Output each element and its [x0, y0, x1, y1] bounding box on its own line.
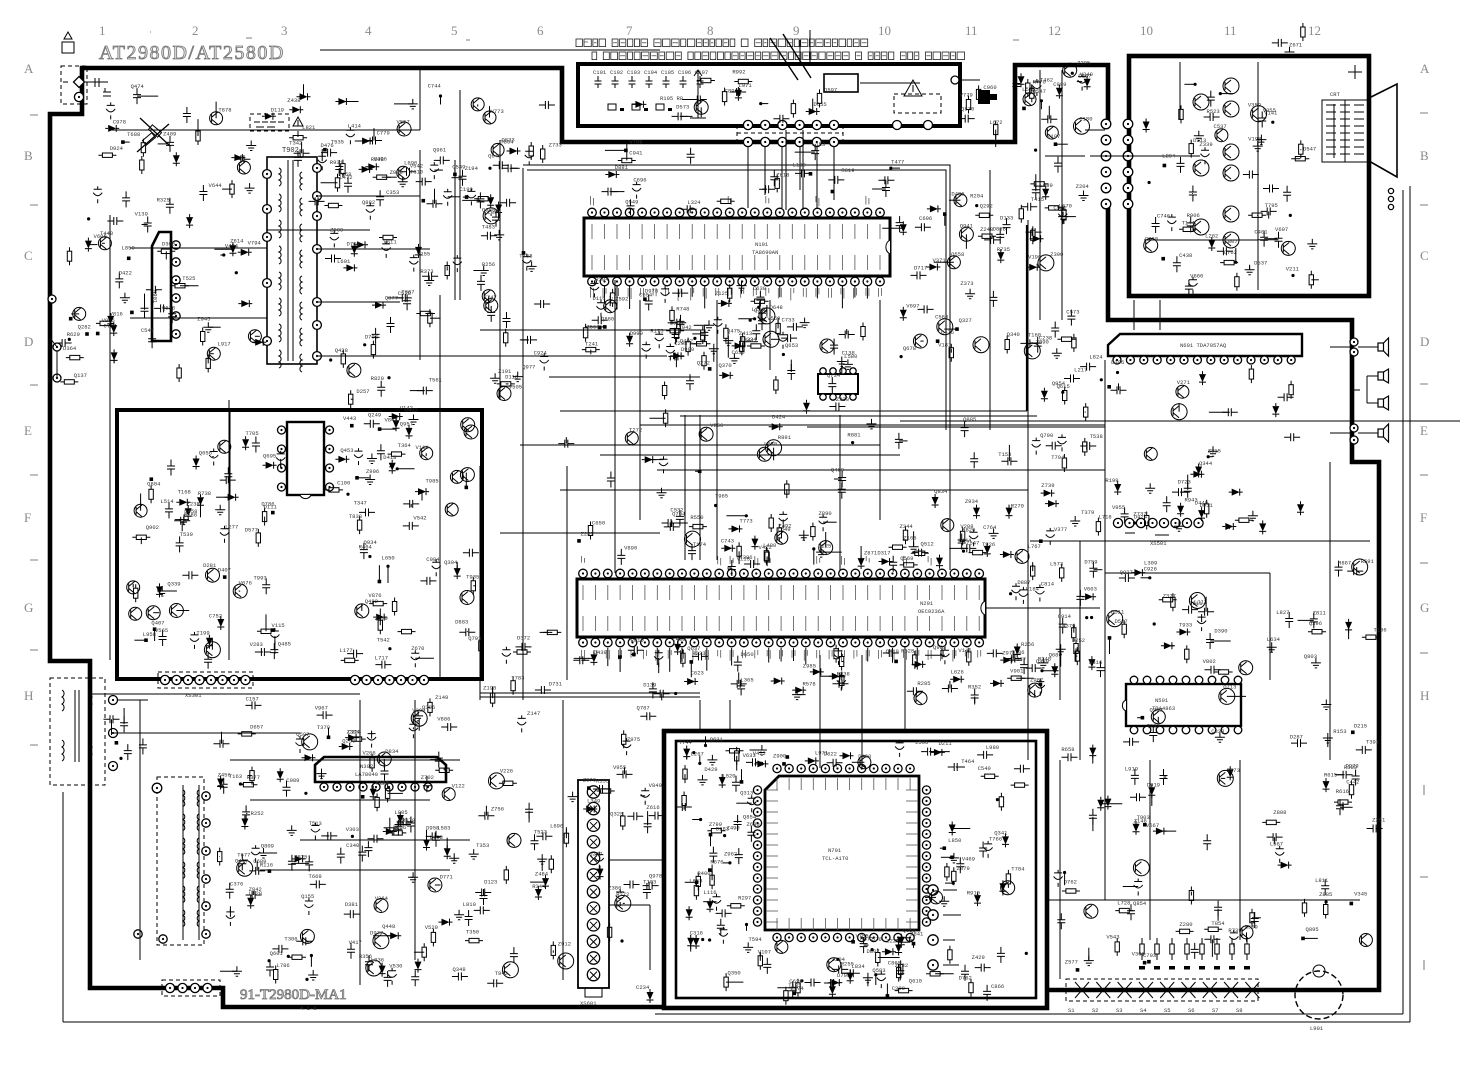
svg-text:C: C	[1420, 248, 1429, 263]
svg-text:S1: S1	[1068, 1007, 1075, 1014]
component cluster: bottom-left mid column	[474, 705, 665, 1003]
wire bottomleft vert	[140, 466, 480, 960]
svg-text:V890: V890	[624, 544, 637, 551]
svg-text:T854: T854	[1211, 920, 1225, 927]
svg-text:L971: L971	[815, 749, 829, 756]
svg-text:D422: D422	[119, 269, 132, 276]
svg-text:L767: L767	[1028, 543, 1041, 550]
svg-text:G: G	[24, 600, 33, 615]
svg-text:Z890: Z890	[818, 510, 831, 517]
svg-text:E: E	[1420, 423, 1428, 438]
wire top right col	[1040, 70, 1105, 320]
svg-text:D978: D978	[645, 288, 658, 295]
svg-text:Z871: Z871	[864, 550, 878, 557]
wire vert center a	[685, 300, 717, 560]
svg-text:R550: R550	[690, 514, 703, 521]
svg-text:T306: T306	[284, 935, 297, 942]
svg-text:Z238: Z238	[187, 500, 200, 507]
svg-text:L717: L717	[375, 654, 388, 661]
svg-text:V264: V264	[375, 895, 389, 902]
svg-text:C779: C779	[377, 129, 390, 136]
svg-text:C733: C733	[781, 316, 794, 323]
svg-text:L116: L116	[703, 889, 716, 896]
svg-text:V145: V145	[958, 647, 971, 654]
AC power inlet XP901	[61, 32, 111, 104]
svg-text:L626: L626	[951, 669, 964, 676]
top block structured parts	[593, 34, 811, 118]
svg-text:T174: T174	[693, 541, 707, 548]
svg-text:Q934: Q934	[364, 539, 378, 546]
svg-text:C340: C340	[346, 842, 359, 849]
svg-text:D887: D887	[1017, 579, 1030, 586]
CRT anode wire	[1348, 65, 1362, 79]
svg-text:S6: S6	[1188, 1007, 1195, 1014]
svg-text:R820: R820	[371, 375, 384, 382]
wire right-bottom link	[1047, 770, 1105, 900]
svg-text:R628: R628	[901, 647, 914, 654]
svg-text:Q927: Q927	[1120, 569, 1133, 576]
IC N501 pins	[1130, 676, 1242, 734]
driver transformer T903	[157, 777, 210, 945]
svg-text:R992: R992	[732, 69, 745, 76]
svg-text:Z569: Z569	[1245, 923, 1258, 930]
svg-text:C102: C102	[610, 69, 623, 76]
wire psu-to-T902	[317, 196, 520, 356]
svg-text:T784: T784	[1011, 865, 1025, 872]
svg-text:D731: D731	[549, 680, 563, 687]
line filter T901	[50, 678, 118, 785]
component cluster: IC2 right tail	[1002, 559, 1102, 698]
svg-text:T525: T525	[182, 275, 195, 282]
bottom sub-board outer border	[664, 731, 1047, 1008]
svg-text:V115: V115	[272, 622, 285, 629]
svg-text:5: 5	[451, 23, 458, 38]
component cluster: below left block	[104, 708, 147, 760]
svg-text:D372: D372	[517, 634, 530, 641]
component cluster: right upper below connector	[1032, 353, 1304, 535]
svg-text:R891: R891	[778, 434, 792, 441]
svg-text:S4: S4	[1140, 1007, 1147, 1014]
svg-text:D597: D597	[824, 87, 837, 94]
svg-text:L691: L691	[337, 258, 351, 265]
svg-text:N701: N701	[828, 847, 842, 854]
svg-text:V226: V226	[500, 768, 513, 775]
svg-text:L217: L217	[1074, 366, 1087, 373]
svg-text:L696: L696	[550, 823, 563, 830]
svg-text:D881: D881	[615, 164, 629, 171]
svg-text:Z909: Z909	[330, 227, 343, 234]
svg-text:Q653: Q653	[785, 342, 798, 349]
svg-text:AT2980D/AT2580D: AT2980D/AT2580D	[99, 42, 285, 64]
svg-text:Q977: Q977	[522, 364, 535, 371]
wire vert right long	[1104, 360, 1106, 770]
svg-text:T688: T688	[127, 131, 140, 138]
svg-text:V543: V543	[1106, 933, 1119, 940]
svg-text:C157: C157	[246, 696, 259, 703]
svg-text:Z146: Z146	[1134, 817, 1147, 824]
svg-text:T379: T379	[1081, 509, 1094, 516]
component cluster: above IC2	[577, 510, 1067, 576]
svg-text:T513: T513	[309, 820, 322, 827]
svg-text:Q512: Q512	[921, 541, 934, 548]
svg-text:B: B	[1420, 148, 1429, 163]
svg-text:D123: D123	[484, 879, 497, 886]
svg-text:C199: C199	[460, 186, 473, 193]
svg-text:T744: T744	[679, 739, 693, 746]
component cluster: power supply right of T902	[325, 136, 562, 408]
svg-text:D381: D381	[345, 901, 359, 908]
svg-text:Z945: Z945	[197, 315, 210, 322]
CRT board block	[1129, 56, 1369, 296]
svg-text:Q880: Q880	[601, 315, 614, 322]
svg-text:T704: T704	[1051, 454, 1065, 461]
svg-text:4: 4	[365, 23, 372, 38]
wire psu extra	[110, 68, 500, 400]
svg-text:V886: V886	[437, 715, 450, 722]
svg-text:V676: V676	[239, 580, 252, 587]
svg-text:Q340: Q340	[1007, 331, 1020, 338]
svg-text:R881: R881	[847, 431, 861, 438]
svg-text:L971: L971	[739, 82, 753, 89]
svg-text:C630: C630	[753, 285, 766, 292]
svg-text:D133: D133	[1000, 215, 1013, 222]
svg-text:6: 6	[537, 23, 544, 38]
degaussing coil L901	[1295, 965, 1343, 1032]
svg-text:C689: C689	[253, 858, 266, 865]
svg-text:D999: D999	[630, 330, 643, 337]
svg-text:C807: C807	[1224, 238, 1237, 245]
svg-text:Q448: Q448	[382, 923, 395, 930]
svg-text:D418: D418	[383, 454, 396, 461]
svg-text:L786: L786	[277, 962, 290, 969]
svg-text:L349: L349	[587, 797, 600, 804]
svg-text:D909: D909	[681, 346, 694, 353]
svg-text:C580: C580	[935, 314, 948, 321]
svg-text:R325: R325	[157, 196, 170, 203]
svg-text:R810: R810	[631, 637, 644, 644]
svg-text:L580: L580	[844, 353, 857, 360]
connector XS301	[158, 672, 253, 699]
svg-text:D924: D924	[110, 145, 124, 152]
svg-text:T523: T523	[534, 828, 547, 835]
svg-text:R867: R867	[1338, 559, 1351, 566]
svg-text:R356: R356	[359, 953, 372, 960]
svg-text:S5: S5	[1164, 1007, 1171, 1014]
svg-text:S8: S8	[1236, 1007, 1243, 1014]
component cluster: bottom block top strip	[704, 736, 975, 771]
regulator IC N901 body	[152, 232, 171, 341]
svg-text:Q809: Q809	[261, 843, 274, 850]
svg-text:S2: S2	[1092, 1007, 1099, 1014]
IC N302 pins	[320, 783, 432, 791]
svg-text:Q678: Q678	[903, 345, 916, 352]
svg-text:Q882: Q882	[362, 199, 375, 206]
svg-text:D771: D771	[440, 873, 454, 880]
svg-text:Q787: Q787	[637, 705, 650, 712]
svg-text:L850: L850	[122, 245, 135, 252]
svg-text:Q356: Q356	[903, 927, 916, 934]
line filter wires	[113, 700, 300, 733]
wire psu horizontal a	[130, 248, 267, 318]
svg-text:D979: D979	[1345, 763, 1358, 770]
svg-text:Z204: Z204	[1076, 183, 1090, 190]
connector XS501	[1113, 518, 1203, 547]
regulator IC N901 pins	[172, 241, 180, 338]
svg-text:Z614: Z614	[230, 238, 244, 245]
svg-text:12: 12	[1308, 23, 1321, 38]
svg-text:T933: T933	[1179, 622, 1192, 629]
wire right lower extra	[1080, 541, 1360, 940]
wire vert center c	[880, 300, 950, 570]
svg-text:Q247: Q247	[589, 850, 602, 857]
svg-text:Z756: Z756	[491, 806, 504, 813]
svg-text:Z125: Z125	[715, 290, 728, 297]
svg-text:C353: C353	[386, 189, 399, 196]
svg-text:D439: D439	[594, 649, 607, 656]
svg-text:N501: N501	[1155, 697, 1169, 704]
svg-text:Z808: Z808	[1273, 809, 1286, 816]
svg-text:9: 9	[793, 23, 800, 38]
svg-text:Z616: Z616	[646, 804, 659, 811]
svg-text:R910: R910	[967, 889, 980, 896]
wire bottom right rail	[1060, 760, 1240, 979]
svg-text:V256: V256	[710, 422, 723, 429]
connector XP101 (two rows on outline)	[737, 120, 843, 146]
component cluster: right mid area	[1039, 558, 1387, 764]
svg-text:V443: V443	[343, 415, 356, 422]
svg-text:10: 10	[878, 23, 891, 38]
component cluster: right of bottom block	[1054, 763, 1386, 972]
microcontroller U3 body	[765, 776, 919, 930]
svg-text:T766: T766	[989, 836, 1002, 843]
wire center frame	[523, 165, 990, 570]
svg-text:D429: D429	[704, 766, 717, 773]
svg-text:R608: R608	[371, 156, 384, 163]
svg-text:C814: C814	[1041, 581, 1055, 588]
wire horiz left below block	[89, 693, 360, 695]
svg-text:T144: T144	[1182, 220, 1196, 227]
transformer T903 pins extra	[134, 783, 167, 943]
posistor R901 diagonals	[137, 118, 170, 152]
svg-text:C924: C924	[534, 349, 548, 356]
svg-text:T494: T494	[375, 780, 389, 787]
svg-text:Q558: Q558	[951, 251, 964, 258]
svg-text:C540: C540	[978, 765, 991, 772]
svg-text:V139: V139	[135, 211, 148, 218]
svg-text:E: E	[24, 423, 32, 438]
connector XS702 in control block	[928, 885, 961, 970]
svg-text:V340: V340	[1080, 71, 1093, 78]
svg-text:T926: T926	[982, 541, 995, 548]
svg-text:D225: D225	[818, 543, 831, 550]
svg-text:Z429: Z429	[972, 954, 985, 961]
component cluster: bottom block left strip	[676, 739, 763, 991]
svg-text:L810: L810	[463, 901, 476, 908]
svg-text:R252: R252	[251, 810, 264, 817]
svg-text:C866: C866	[991, 983, 1004, 990]
IC U2 video processor body	[577, 579, 985, 637]
svg-text:OEC9236A: OEC9236A	[918, 608, 945, 615]
svg-text:Q961: Q961	[433, 146, 447, 153]
svg-text:V843: V843	[384, 417, 397, 424]
svg-text:Z900: Z900	[773, 753, 786, 760]
svg-text:T364: T364	[398, 442, 412, 449]
svg-text:Z344: Z344	[900, 523, 914, 530]
svg-text:Q327: Q327	[959, 317, 972, 324]
svg-text:D211: D211	[939, 740, 953, 747]
wire bottom center links	[700, 655, 862, 768]
svg-text:C920: C920	[1145, 235, 1158, 242]
frame screws right	[1388, 188, 1393, 209]
svg-text:Z739: Z739	[1041, 482, 1054, 489]
svg-text:TA8690AN: TA8690AN	[752, 249, 778, 256]
IC N302 vertical out body	[315, 757, 446, 782]
svg-text:D762: D762	[959, 974, 972, 981]
component cluster: power supply upper	[93, 83, 555, 220]
svg-text:Q569: Q569	[900, 555, 913, 562]
connector XS601 (deflection yoke) body	[578, 780, 609, 997]
svg-text:L480: L480	[763, 542, 776, 549]
svg-text:L917: L917	[218, 340, 231, 347]
svg-text:Q854: Q854	[1133, 900, 1147, 907]
transformer T902 body	[267, 157, 317, 372]
svg-text:C629: C629	[789, 978, 802, 985]
svg-text:Z985: Z985	[803, 663, 816, 670]
svg-text:D: D	[1420, 334, 1429, 349]
svg-text:T985: T985	[425, 478, 438, 485]
component cluster: left block left half	[127, 430, 291, 669]
svg-text:T347: T347	[354, 499, 367, 506]
svg-text:L634: L634	[1267, 636, 1281, 643]
svg-text:8: 8	[707, 23, 714, 38]
svg-text:Z560: Z560	[586, 324, 599, 331]
svg-text:L400: L400	[672, 636, 685, 643]
svg-text:Q803: Q803	[1304, 653, 1317, 660]
svg-text:A: A	[1420, 61, 1430, 76]
svg-text:Q460: Q460	[831, 467, 844, 474]
CRT driver transistors Q601-Q603	[1193, 78, 1239, 248]
svg-text:Q549: Q549	[625, 198, 638, 205]
svg-text:Z257: Z257	[581, 530, 594, 537]
svg-text:L262: L262	[1205, 232, 1218, 239]
svg-text:T538: T538	[1090, 433, 1103, 440]
svg-text:R619: R619	[841, 167, 854, 174]
svg-text:T773: T773	[740, 518, 753, 525]
svg-text:Q407: Q407	[151, 619, 164, 626]
svg-text:Q344: Q344	[1199, 460, 1213, 467]
wire bottomleft extra	[230, 700, 470, 985]
svg-text:V432: V432	[405, 407, 418, 414]
svg-text:C573: C573	[1066, 308, 1079, 315]
svg-text:Q485: Q485	[278, 641, 291, 648]
svg-text:D119: D119	[271, 106, 284, 113]
svg-text:C401: C401	[1254, 228, 1268, 235]
svg-text:Q983: Q983	[933, 644, 946, 651]
svg-text:T942: T942	[495, 970, 508, 977]
svg-text:Z484: Z484	[535, 871, 549, 878]
svg-text:L153: L153	[812, 141, 825, 148]
component cluster: center-left gap	[482, 139, 550, 383]
svg-text:C746: C746	[1157, 213, 1170, 220]
svg-text:Q269: Q269	[1149, 707, 1162, 714]
svg-text:V359: V359	[1248, 102, 1261, 109]
main board outline (thick)	[50, 65, 1379, 1007]
svg-text:C316: C316	[690, 930, 703, 937]
svg-text:Q649: Q649	[488, 152, 501, 159]
svg-text:L728: L728	[1117, 900, 1130, 907]
svg-text:L905: L905	[394, 809, 407, 816]
svg-text:D396: D396	[1111, 359, 1124, 366]
component cluster: left block right half	[325, 420, 479, 668]
wire right mid rail2	[1270, 462, 1330, 760]
svg-text:D287: D287	[1290, 734, 1303, 741]
svg-text:T464: T464	[961, 758, 975, 765]
connector XS302	[350, 675, 428, 684]
svg-text:C743: C743	[721, 537, 734, 544]
svg-text:Z975: Z975	[627, 736, 640, 743]
svg-text:Q978: Q978	[649, 872, 662, 879]
svg-text:C941: C941	[629, 150, 643, 157]
tuner box A101	[824, 74, 997, 130]
svg-text:B: B	[24, 148, 33, 163]
svg-text:C537: C537	[1214, 123, 1227, 130]
wire horiz center b	[520, 444, 880, 446]
svg-text:D305: D305	[162, 240, 175, 247]
svg-text:Q447: Q447	[235, 858, 248, 865]
component cluster: above IC1	[602, 139, 905, 216]
svg-text:D424: D424	[772, 414, 786, 421]
svg-text:C744: C744	[428, 83, 442, 90]
svg-text:12: 12	[1048, 23, 1061, 38]
svg-text:Q282: Q282	[78, 323, 91, 330]
svg-text:V345: V345	[1354, 891, 1367, 898]
svg-text:11: 11	[965, 23, 978, 38]
wire bottom-left riser	[563, 466, 567, 980]
svg-text:V155: V155	[417, 251, 430, 258]
key/LED board S1-S9	[1066, 979, 1259, 1014]
svg-text:Q137: Q137	[74, 372, 87, 379]
svg-text:R248: R248	[1038, 655, 1051, 662]
svg-text:V644: V644	[209, 182, 223, 189]
wire center extra a	[600, 280, 900, 573]
svg-text:L850: L850	[948, 837, 961, 844]
svg-text:F: F	[24, 510, 31, 525]
svg-text:Z618: Z618	[776, 172, 789, 179]
svg-text:R658: R658	[1061, 746, 1074, 753]
component cluster: below IC2	[573, 636, 1061, 705]
svg-text:T669: T669	[309, 873, 322, 880]
svg-text:Q583: Q583	[872, 967, 885, 974]
microcontroller U3 pins	[753, 764, 930, 941]
svg-text:L821: L821	[302, 124, 316, 131]
svg-text:Z191: Z191	[498, 368, 512, 375]
svg-text:T561: T561	[429, 377, 443, 384]
svg-text:D547: D547	[1303, 146, 1316, 153]
svg-text:V607: V607	[1275, 226, 1288, 233]
svg-text:D257: D257	[356, 388, 369, 395]
svg-text:Q601: Q601	[270, 950, 284, 957]
svg-text:D911: D911	[1200, 502, 1214, 509]
svg-text:D111: D111	[592, 295, 606, 302]
svg-text:3: 3	[281, 23, 288, 38]
svg-text:V773: V773	[491, 108, 504, 115]
svg-text:Z547: Z547	[966, 539, 979, 546]
svg-text:T539: T539	[180, 531, 193, 538]
svg-text:C989: C989	[286, 777, 299, 784]
svg-text:V565: V565	[155, 627, 168, 634]
svg-text:D460: D460	[858, 753, 871, 760]
svg-text:Q954: Q954	[1052, 380, 1066, 387]
